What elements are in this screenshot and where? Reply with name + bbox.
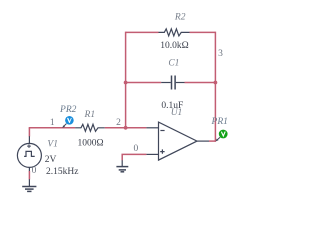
svg-text:U1: U1 [171, 108, 183, 118]
wire: non-inverting input to ground corner [122, 154, 146, 160]
wire: capacitor branch left segment [126, 82, 162, 84]
svg-text:R2: R2 [174, 13, 186, 23]
wire: V1 to R1 segment [29, 127, 75, 129]
svg-text:10.0kΩ: 10.0kΩ [160, 41, 188, 51]
capacitor C1 [161, 76, 184, 90]
ground at op-amp [116, 160, 128, 172]
wire: V1 vertical up to node 1 [28, 128, 30, 137]
svg-text:1000Ω: 1000Ω [77, 138, 103, 148]
svg-text:PR1: PR1 [211, 117, 228, 127]
svg-text:R1: R1 [84, 110, 96, 120]
svg-text:0: 0 [32, 166, 37, 176]
svg-text:V1: V1 [47, 139, 58, 149]
junction: inverting input node 2 [124, 126, 128, 130]
svg-text:C1: C1 [168, 59, 179, 69]
wire: right vertical feedback wire [214, 32, 216, 142]
resistor R2 [159, 29, 190, 36]
svg-text:2: 2 [116, 118, 121, 128]
svg-text:2V: 2V [45, 155, 57, 165]
wire: capacitor branch right segment [185, 82, 216, 84]
svg-text:2.15kHz: 2.15kHz [46, 167, 78, 177]
wire: left vertical feedback wire [125, 32, 127, 128]
probe PR1 (green voltage probe) [216, 130, 228, 142]
svg-text:PR2: PR2 [59, 105, 77, 115]
svg-text:0: 0 [134, 144, 139, 154]
junction: cap-left [124, 81, 128, 85]
op-amp U1 [146, 122, 209, 160]
ground under V1 [22, 179, 36, 191]
svg-text:1: 1 [50, 118, 55, 128]
probe PR2 (blue voltage probe) [62, 116, 73, 128]
wire: top feedback horizontal right segment [190, 31, 216, 33]
wire: op-amp output [209, 140, 215, 142]
wire: top feedback horizontal left segment [126, 31, 159, 33]
wire: R1 to junction to op-amp inverting input [105, 127, 147, 129]
source V1 (square wave) [17, 136, 41, 171]
wire: V1 to ground [28, 171, 30, 179]
junction: cap-right [214, 81, 218, 85]
resistor R1 [75, 124, 105, 131]
svg-text:3: 3 [218, 49, 223, 59]
